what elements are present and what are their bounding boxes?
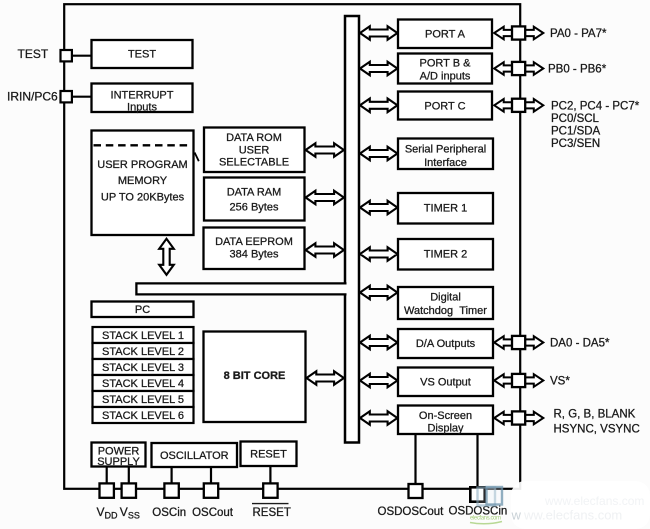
wire OSCin: [171, 467, 173, 484]
pin-arrow left PA0 - PA7*: [494, 27, 512, 40]
svg-text:PC1/SDA: PC1/SDA: [551, 125, 601, 137]
box STACK LEVEL 5: [93, 391, 194, 407]
svg-text:UP TO 20KBytes: UP TO 20KBytes: [101, 192, 185, 204]
wire VSS: [128, 467, 130, 485]
svg-text:A/D inputs: A/D inputs: [420, 70, 471, 82]
pin-arrow left PB0 - PB6*: [494, 62, 512, 75]
svg-text:Watchdog Timer: Watchdog Timer: [404, 305, 487, 317]
wire OSCout: [210, 467, 212, 484]
pin IRIN/PC6: [61, 91, 72, 102]
pin RESET: [263, 483, 277, 497]
svg-text:STACK LEVEL 4: STACK LEVEL 4: [102, 378, 184, 390]
watermark fade blob: [511, 481, 650, 529]
box POWER SUPPLY: [92, 443, 146, 467]
horizontal bus bar to core area: [136, 283, 346, 294]
wire OSDOSCin: [476, 434, 478, 488]
svg-text:PB0 - PB6*: PB0 - PB6*: [548, 63, 607, 75]
svg-text:RESET: RESET: [253, 507, 291, 519]
double arrow DATA RAM to bus: [306, 191, 344, 205]
double arrow bus to PORT C: [360, 99, 397, 113]
pin square PB0 - PB6*: [512, 62, 525, 75]
svg-text:TEST: TEST: [128, 49, 156, 61]
svg-text:MEMORY: MEMORY: [118, 175, 168, 187]
box PORT C: [398, 92, 492, 120]
double arrow bus to SPI: [360, 147, 397, 161]
pin OSCout: [204, 483, 218, 497]
svg-text:STACK LEVEL 2: STACK LEVEL 2: [102, 346, 184, 358]
pin-arrow right PC: [525, 99, 544, 112]
svg-text:VS*: VS*: [550, 376, 570, 388]
pin OSDOSCout: [409, 484, 423, 498]
svg-text:www.elecfans.com: www.elecfans.com: [544, 494, 644, 508]
vertical data bus: [345, 16, 359, 443]
svg-text:STACK LEVEL 3: STACK LEVEL 3: [102, 362, 184, 374]
svg-text:Interface: Interface: [424, 157, 467, 169]
svg-text:PA0 - PA7*: PA0 - PA7*: [550, 28, 607, 40]
box DATA ROM USER SELECTABLE: [204, 128, 305, 173]
pin VDD: [100, 483, 114, 497]
pin square DA0 - DA5*: [512, 336, 525, 349]
svg-text:elecfans.com: elecfans.com: [470, 516, 501, 522]
svg-text:Inputs: Inputs: [127, 102, 157, 114]
svg-text:D/A Outputs: D/A Outputs: [416, 338, 476, 350]
box RESET: [241, 442, 297, 467]
box 8 BIT CORE: [204, 332, 306, 423]
box STACK LEVEL 4: [93, 375, 194, 391]
box D/A Outputs: [398, 329, 493, 358]
double arrow bus to PORT B: [360, 62, 397, 76]
double arrow bus to PORT A: [360, 26, 397, 40]
pin-arrow left VS*: [494, 374, 512, 387]
double arrow bus to OSD: [360, 411, 397, 425]
svg-text:OSDOSCout: OSDOSCout: [378, 506, 445, 518]
double arrow 8 BIT CORE to bus: [307, 371, 344, 385]
svg-text:R, G, B, BLANK: R, G, B, BLANK: [554, 409, 636, 421]
double arrow bus to WATCHDOG: [360, 286, 397, 300]
svg-text:384 Bytes: 384 Bytes: [230, 249, 279, 261]
pin VSS: [122, 483, 136, 497]
svg-text:OSCout: OSCout: [192, 507, 234, 519]
wire RESET: [269, 466, 271, 484]
svg-text:SUPPLY: SUPPLY: [97, 456, 140, 468]
watermark green swoosh: [470, 522, 502, 524]
svg-text:STACK LEVEL 6: STACK LEVEL 6: [102, 410, 184, 422]
svg-text:TIMER 2: TIMER 2: [424, 249, 467, 261]
svg-text:DA0 - DA5*: DA0 - DA5*: [550, 338, 610, 350]
svg-text:IRIN/PC6: IRIN/PC6: [7, 89, 58, 103]
watermark logo blue squares: [478, 488, 496, 506]
wire VDD: [106, 467, 108, 485]
box PC: [92, 302, 194, 318]
svg-text:DATA RAM: DATA RAM: [227, 186, 282, 198]
box DATA EEPROM 384 Bytes: [204, 228, 305, 270]
pin OSCin: [164, 483, 178, 497]
svg-text:Digital: Digital: [430, 291, 461, 303]
svg-text:DATA ROM: DATA ROM: [226, 132, 282, 144]
svg-text:OSCin: OSCin: [152, 507, 186, 519]
pin-arrow right RGB: [525, 412, 544, 425]
pin-arrow left DA0 - DA5*: [494, 336, 512, 349]
svg-text:PC: PC: [135, 304, 150, 316]
svg-text:PORT B &: PORT B &: [420, 57, 472, 69]
svg-text:HSYNC, VSYNC: HSYNC, VSYNC: [554, 424, 640, 436]
pin-arrow left PC: [494, 99, 512, 112]
svg-text:TEST: TEST: [18, 47, 49, 61]
box USER PROGRAM MEMORY: [92, 131, 194, 236]
pin square PC: [512, 99, 525, 112]
pin-arrow right VS*: [525, 374, 544, 387]
pin-arrow left RGB: [494, 412, 512, 425]
svg-text:STACK LEVEL 1: STACK LEVEL 1: [102, 330, 184, 342]
double arrow DATA ROM to bus: [306, 143, 344, 157]
svg-text:INTERRUPT: INTERRUPT: [111, 90, 174, 102]
svg-text:SELECTABLE: SELECTABLE: [219, 157, 289, 169]
wire IRIN pin to INTERRUPT box: [70, 96, 92, 98]
svg-text:Display: Display: [427, 423, 464, 435]
double arrow bus to TIMER 1: [360, 201, 397, 215]
double arrow bus to VS: [360, 374, 397, 388]
pin-arrow right DA0 - DA5*: [525, 336, 544, 349]
box PORT B and A/D inputs: [398, 54, 492, 84]
box PORT A: [398, 20, 492, 49]
dashed partition line: [94, 144, 192, 146]
svg-text:8 BIT CORE: 8 BIT CORE: [224, 370, 286, 382]
double arrow bus to D/A: [360, 336, 397, 350]
wire OSDOSCout: [414, 434, 416, 485]
box On-Screen Display: [398, 406, 493, 435]
pin-arrow right PA0 - PA7*: [525, 27, 544, 40]
svg-text:STACK LEVEL 5: STACK LEVEL 5: [102, 394, 184, 406]
svg-text:VS Output: VS Output: [420, 377, 471, 389]
svg-text:RESET: RESET: [250, 449, 287, 461]
wire TEST pin to TEST box: [70, 55, 92, 57]
box OSCILLATOR: [152, 443, 238, 467]
svg-text:Serial Peripheral: Serial Peripheral: [405, 144, 486, 156]
box Digital Watchdog Timer: [398, 287, 493, 319]
svg-text:256 Bytes: 256 Bytes: [230, 201, 279, 213]
svg-text:PC0/SCL: PC0/SCL: [551, 113, 600, 125]
svg-text:PORT A: PORT A: [425, 28, 466, 40]
chip boundary rectangle: [64, 4, 520, 489]
box INTERRUPT Inputs: [92, 84, 193, 113]
svg-text:TIMER 1: TIMER 1: [424, 203, 467, 215]
pin square RGB: [512, 411, 525, 424]
box DATA RAM 256 Bytes: [204, 178, 305, 221]
box TIMER 2: [398, 239, 493, 270]
box Serial Peripheral Interface: [398, 139, 493, 170]
pin square VS*: [512, 374, 525, 387]
svg-text:USER PROGRAM: USER PROGRAM: [97, 159, 187, 171]
box STACK LEVEL 6: [93, 407, 194, 423]
double arrow DATA EEPROM to bus: [306, 243, 344, 257]
pin TEST: [61, 50, 72, 61]
svg-text:PC2, PC4 - PC7*: PC2, PC4 - PC7*: [551, 101, 640, 113]
box STACK LEVEL 1: [93, 327, 194, 343]
svg-text:OSCILLATOR: OSCILLATOR: [160, 450, 229, 462]
svg-text:ww.elecfans.com: ww.elecfans.com: [523, 508, 622, 523]
tick mark between memory and data rom: [195, 153, 199, 162]
svg-text:USER: USER: [239, 144, 270, 156]
svg-text:w: w: [511, 508, 522, 523]
svg-text:PC3/SEN: PC3/SEN: [551, 138, 600, 150]
svg-text:On-Screen: On-Screen: [419, 410, 472, 422]
vertical double arrow: user program memory to bus: [159, 239, 174, 275]
pin-arrow right PB0 - PB6*: [525, 62, 544, 75]
box VS Output: [398, 368, 493, 397]
box STACK LEVEL 2: [93, 343, 194, 359]
box STACK LEVEL 3: [93, 359, 194, 375]
pin OSDOSCin: [470, 487, 484, 501]
double arrow bus to TIMER 2: [360, 247, 397, 261]
svg-text:DATA EEPROM: DATA EEPROM: [215, 236, 293, 248]
box TIMER 1: [398, 193, 493, 224]
pin square PA0 - PA7*: [512, 26, 525, 39]
svg-text:PORT C: PORT C: [424, 100, 465, 112]
box TEST U-block: [92, 40, 193, 68]
